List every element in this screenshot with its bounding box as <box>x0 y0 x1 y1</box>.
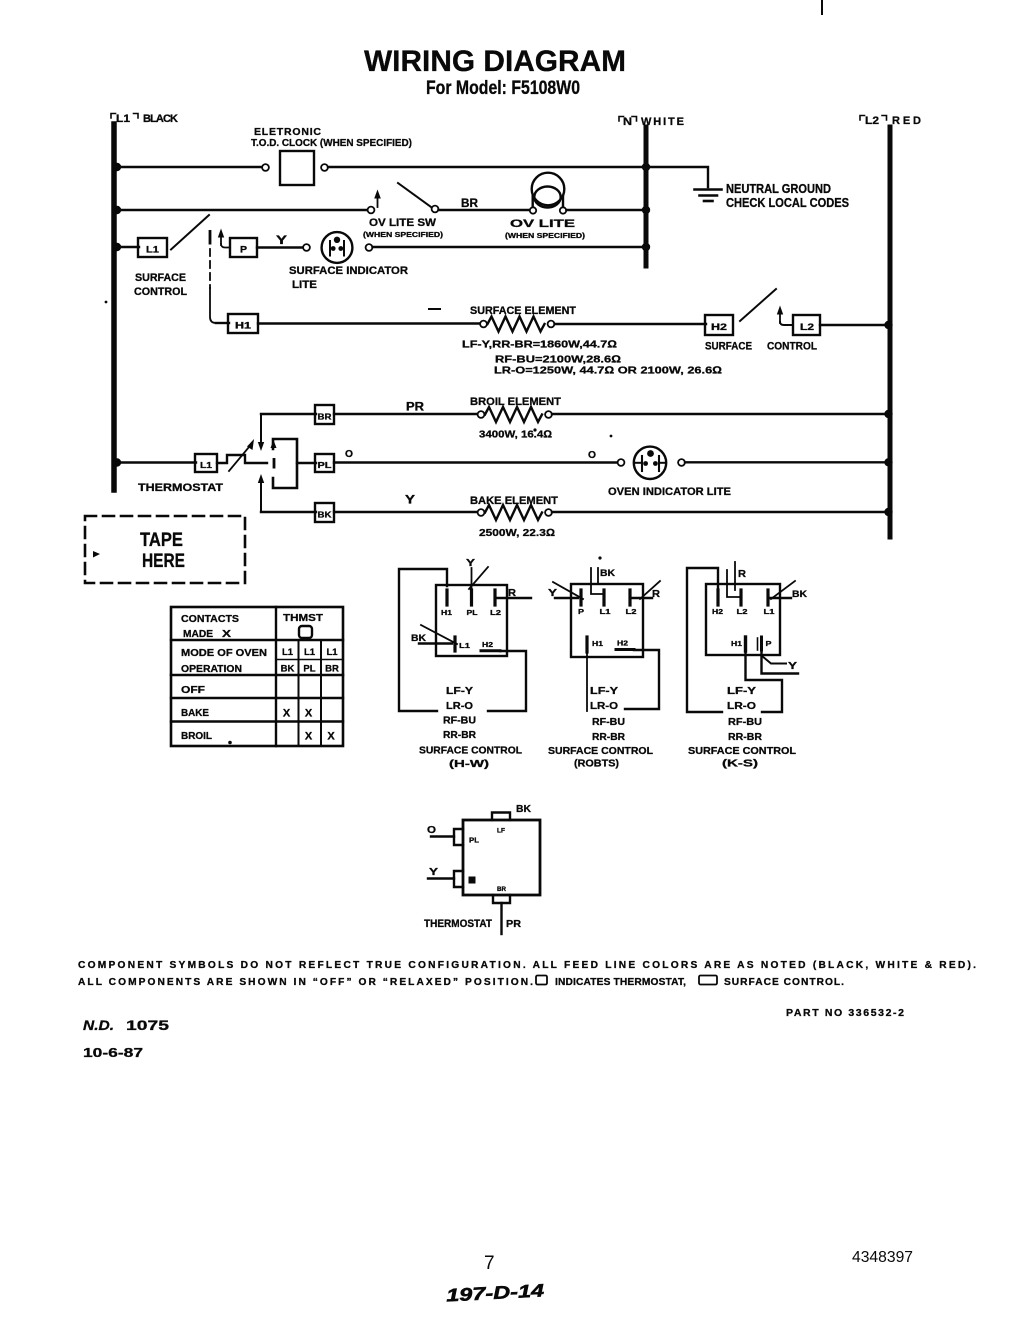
wire H1 down <box>586 652 588 711</box>
switch blade OV LITE SW <box>398 183 431 207</box>
wire R input <box>631 597 652 599</box>
svg-text:(K-S): (K-S) <box>722 758 758 770</box>
svg-text:THERMOSTAT: THERMOSTAT <box>424 918 492 930</box>
svg-text:LR-O=1250W, 44.7Ω OR 2100W, 26: LR-O=1250W, 44.7Ω OR 2100W, 26.6Ω <box>494 365 722 377</box>
svg-text:LR-O: LR-O <box>590 700 618 712</box>
svg-text:L2: L2 <box>737 607 748 616</box>
bracket arrow <box>271 440 277 448</box>
svg-text:RR-BR: RR-BR <box>728 731 762 743</box>
thermostat detail <box>424 804 540 934</box>
thermostat box L1 <box>195 454 217 472</box>
stray mark <box>429 308 440 310</box>
pin P <box>579 590 582 605</box>
surface control symbol small <box>699 976 717 985</box>
svg-text:L1: L1 <box>764 607 775 616</box>
thermostat actuator slash arrow <box>229 439 254 471</box>
thermostat symbol small <box>536 976 547 985</box>
svg-text:RF-BU: RF-BU <box>443 715 476 727</box>
svg-text:X: X <box>327 731 335 743</box>
bus N (white neutral) <box>644 127 649 266</box>
broil drop wire <box>258 414 264 451</box>
svg-text:RED: RED <box>892 115 921 127</box>
svg-text:197-D-14: 197-D-14 <box>446 1280 545 1305</box>
svg-text:PR: PR <box>406 402 425 414</box>
svg-text:P: P <box>240 245 247 255</box>
svg-text:BLACK: BLACK <box>143 113 178 125</box>
terminal bake left <box>478 509 485 516</box>
svg-text:RF-BU: RF-BU <box>592 716 625 728</box>
terminal bake right <box>545 509 552 516</box>
terminal indicator left <box>303 244 310 251</box>
svg-text:R: R <box>738 569 747 580</box>
terminal clock right <box>321 164 328 171</box>
wire H1 loop <box>746 651 783 712</box>
bottom tab with PR wire <box>493 895 510 903</box>
node L2 label RED <box>860 115 921 127</box>
actuator arrow P branch <box>218 229 230 248</box>
terminal oven lamp left <box>618 459 625 466</box>
wire ov lite to N bus <box>567 209 645 211</box>
node N label WHITE <box>619 116 684 128</box>
wire L1 to oven lite switch <box>117 209 367 211</box>
electronic T.O.D. clock box <box>280 151 314 185</box>
svg-text:L2: L2 <box>626 607 637 616</box>
svg-text:THERMOSTAT: THERMOSTAT <box>138 482 223 494</box>
svg-text:SURFACE ELEMENT: SURFACE ELEMENT <box>470 305 576 317</box>
svg-text:SURFACE CONTROL: SURFACE CONTROL <box>548 745 654 757</box>
wire broil to L2 bus <box>552 413 888 415</box>
pin L2 top <box>739 590 742 605</box>
surface control ROBTS detail <box>548 568 660 770</box>
bus L1 (black feed) <box>111 124 117 490</box>
svg-text:P: P <box>578 607 584 616</box>
svg-text:RF-BU: RF-BU <box>728 716 762 728</box>
junction L2-bake row <box>884 508 892 516</box>
svg-text:CONTROL: CONTROL <box>767 341 817 353</box>
wire H2 loop <box>625 650 659 709</box>
terminal broil right <box>545 411 552 418</box>
svg-text:O: O <box>427 825 436 836</box>
wire BK to bake element <box>334 511 478 513</box>
svg-text:T.O.D. CLOCK (WHEN SPECIFIED): T.O.D. CLOCK (WHEN SPECIFIED) <box>251 137 412 149</box>
pin H1 <box>445 590 448 605</box>
svg-text:(H-W): (H-W) <box>449 758 489 770</box>
terminal broil left <box>478 411 485 418</box>
oven indicator lite lamp <box>634 447 666 479</box>
switch blade surface control right <box>740 289 776 321</box>
thermostat body <box>463 820 540 895</box>
svg-text:L1: L1 <box>282 647 294 658</box>
svg-text:LF-Y: LF-Y <box>446 685 473 697</box>
svg-text:BR: BR <box>318 412 332 422</box>
svg-text:LITE: LITE <box>292 279 317 291</box>
terminal ov lite right <box>560 207 566 213</box>
pin L2 top <box>628 590 631 605</box>
junction L1-clock row <box>113 163 121 171</box>
svg-text:OPERATION: OPERATION <box>181 663 242 675</box>
terminal ov lite left <box>530 207 536 213</box>
svg-text:H1: H1 <box>592 639 603 648</box>
svg-text:L1: L1 <box>304 647 316 658</box>
junction L1-ovlite row <box>113 206 121 214</box>
oven lite lamp OV LITE <box>532 173 565 208</box>
svg-text:3400W, 16.4Ω: 3400W, 16.4Ω <box>479 429 552 441</box>
svg-text:TAPE: TAPE <box>140 530 183 551</box>
junction L2-broil row <box>884 410 892 418</box>
svg-text:PL: PL <box>467 608 478 617</box>
wire R input <box>727 570 740 597</box>
surface control K-S detail <box>687 562 808 770</box>
surface control H-W detail <box>399 558 531 770</box>
box L2 <box>793 315 820 335</box>
svg-text:N.D.: N.D. <box>83 1018 114 1033</box>
svg-text:X: X <box>283 708 291 720</box>
svg-text:L1: L1 <box>326 647 338 658</box>
surface control box L1 <box>138 238 167 257</box>
svg-text:H2: H2 <box>617 639 628 648</box>
svg-text:MODE OF OVEN: MODE OF OVEN <box>181 647 267 659</box>
svg-text:N: N <box>623 116 632 128</box>
svg-text:CONTACTS: CONTACTS <box>181 613 239 625</box>
resistor bake element <box>485 505 542 520</box>
svg-text:SURFACE INDICATOR: SURFACE INDICATOR <box>289 265 408 277</box>
left tab PL with O wire <box>454 829 463 845</box>
svg-text:1075: 1075 <box>126 1018 170 1033</box>
node L1 label BLACK <box>111 113 178 125</box>
svg-text:MADE: MADE <box>183 628 213 640</box>
svg-text:10-6-87: 10-6-87 <box>83 1045 143 1060</box>
left tab BK with Y wire <box>454 871 463 887</box>
bus L2 (red feed) <box>888 127 893 537</box>
svg-text:BROIL: BROIL <box>181 730 213 742</box>
wire L1 to surface control <box>117 246 139 248</box>
pin L2 <box>493 590 496 605</box>
svg-text:R: R <box>652 588 660 600</box>
svg-text:Y: Y <box>276 235 287 247</box>
wire BK input <box>769 597 791 599</box>
svg-text:BK: BK <box>318 510 333 520</box>
svg-text:X: X <box>222 628 231 640</box>
wire BK input <box>591 568 603 594</box>
svg-text:BK: BK <box>600 568 616 578</box>
terminal ov lite sw left <box>368 207 375 214</box>
svg-text:L1: L1 <box>116 113 130 125</box>
terminal ov lite sw right <box>432 206 439 213</box>
svg-text:LF: LF <box>497 828 505 835</box>
svg-text:ALL COMPONENTS ARE SHOWN IN “O: ALL COMPONENTS ARE SHOWN IN “OFF” OR “RE… <box>78 977 533 988</box>
element loop wire H-W <box>399 569 526 711</box>
thermostat moving contact bar <box>273 458 276 469</box>
svg-text:SURFACE CONTROL: SURFACE CONTROL <box>688 745 797 757</box>
svg-text:(ROBTS): (ROBTS) <box>574 758 619 770</box>
svg-text:COMPONENT SYMBOLS DO NOT REFLE: COMPONENT SYMBOLS DO NOT REFLECT TRUE CO… <box>78 960 976 971</box>
svg-text:(WHEN SPECIFIED): (WHEN SPECIFIED) <box>363 230 444 239</box>
svg-text:THMST: THMST <box>283 612 324 624</box>
svg-text:BK: BK <box>792 589 808 599</box>
box H2 <box>705 315 733 335</box>
box PL <box>315 454 334 472</box>
wire link to H1 <box>216 322 229 324</box>
svg-text:BK: BK <box>411 633 427 643</box>
svg-text:H2: H2 <box>482 640 493 649</box>
wire P to indicator <box>257 246 303 248</box>
svg-text:LR-O: LR-O <box>727 700 756 712</box>
svg-text:L1: L1 <box>200 460 212 470</box>
svg-text:SURFACE: SURFACE <box>135 272 186 284</box>
svg-text:L1: L1 <box>459 641 470 650</box>
svg-text:PR: PR <box>506 918 521 930</box>
svg-text:WIRING DIAGRAM: WIRING DIAGRAM <box>364 45 626 78</box>
box P <box>230 238 257 257</box>
pin H1 bottom <box>585 637 588 652</box>
tape here box <box>85 516 245 583</box>
wire surface element to H2 <box>555 323 707 325</box>
svg-text:For Model: F5108W0: For Model: F5108W0 <box>426 78 580 99</box>
svg-text:CHECK LOCAL CODES: CHECK LOCAL CODES <box>726 196 849 210</box>
junction N-ovlite row <box>642 206 650 214</box>
svg-text:BR: BR <box>325 664 339 675</box>
mechanical link solid to H1 row <box>210 288 216 323</box>
svg-text:SURFACE CONTROL: SURFACE CONTROL <box>419 745 523 757</box>
box BR <box>315 405 334 424</box>
junction L1-thermostat row <box>113 458 121 466</box>
svg-text:NEUTRAL GROUND: NEUTRAL GROUND <box>726 182 831 196</box>
wire N bus to ground <box>649 167 708 187</box>
svg-text:Y: Y <box>788 661 797 672</box>
svg-text:BROIL ELEMENT: BROIL ELEMENT <box>470 396 561 408</box>
box H1 <box>228 314 258 333</box>
junction L1-surface control row <box>113 243 121 251</box>
pin L1 top <box>766 590 769 605</box>
svg-text:7: 7 <box>484 1253 495 1274</box>
svg-text:BAKE: BAKE <box>181 707 209 719</box>
wire R output <box>497 597 531 599</box>
stray dots <box>533 428 536 431</box>
svg-text:OFF: OFF <box>181 684 206 696</box>
contact bar <box>209 230 212 245</box>
wire P down <box>762 650 799 674</box>
svg-text:OV LITE: OV LITE <box>510 218 575 230</box>
pin P bottom <box>757 638 759 650</box>
neutral ground symbol <box>695 190 722 202</box>
svg-text:HERE: HERE <box>142 551 185 572</box>
svg-text:OVEN INDICATOR LITE: OVEN INDICATOR LITE <box>608 486 731 498</box>
junction L2-surface row <box>884 321 892 329</box>
pin L1 <box>453 637 456 651</box>
switch body ROBTS <box>571 584 643 657</box>
svg-text:L1: L1 <box>600 607 611 616</box>
svg-text:INDICATES THERMOSTAT,: INDICATES THERMOSTAT, <box>555 977 686 988</box>
svg-text:BK: BK <box>281 664 295 675</box>
wire switch to ov lite <box>439 209 530 211</box>
svg-text:L1: L1 <box>146 245 159 255</box>
svg-text:LR-O: LR-O <box>446 700 473 712</box>
wire bake to L2 bus <box>552 511 888 513</box>
actuator arrow L2 <box>777 306 793 326</box>
svg-text:BK: BK <box>516 804 532 815</box>
resistor surface element <box>488 317 545 332</box>
junction N-clock row <box>642 163 650 171</box>
stray dot <box>228 741 232 745</box>
pin PL <box>470 590 473 605</box>
svg-text:O: O <box>345 448 353 460</box>
svg-text:H1: H1 <box>441 608 452 617</box>
tape arrow mark <box>93 551 100 558</box>
svg-text:2500W, 22.3Ω: 2500W, 22.3Ω <box>479 527 555 539</box>
svg-text:BR: BR <box>461 198 479 210</box>
wire indicator to N bus <box>373 246 645 248</box>
table column heads L1/BK L1/PL L1/BR <box>281 647 339 675</box>
thermostat contact bracket <box>273 439 297 488</box>
wire clock to N bus <box>328 166 644 168</box>
svg-text:H1: H1 <box>235 321 251 331</box>
wire BR to broil element <box>334 413 478 415</box>
page corner tick <box>821 0 823 14</box>
svg-text:RR-BR: RR-BR <box>443 729 476 741</box>
svg-text:LF-Y,RR-BR=1860W,44.7Ω: LF-Y,RR-BR=1860W,44.7Ω <box>462 339 617 351</box>
svg-text:H1: H1 <box>731 639 742 648</box>
svg-text:Y: Y <box>429 867 438 878</box>
surface indicator lite lamp <box>322 232 353 263</box>
contacts table <box>171 607 343 746</box>
terminal oven lamp right <box>678 459 685 466</box>
resistor broil element <box>485 407 542 422</box>
terminal surface element right <box>548 321 555 328</box>
svg-text:L2: L2 <box>490 608 501 617</box>
junction L2-oven row <box>884 458 892 466</box>
svg-text:OV LITE SW: OV LITE SW <box>369 217 437 229</box>
bake rise wire <box>258 474 264 512</box>
wire L2 box to L2 bus <box>820 324 888 326</box>
svg-text:BR: BR <box>497 886 506 893</box>
thermostat symbol in table <box>299 626 312 638</box>
wire Y input <box>555 597 578 599</box>
wire H1 to surface element <box>258 322 480 324</box>
junction N-indicator row <box>642 243 650 251</box>
switch blade surface control <box>171 215 209 250</box>
terminal surface element left <box>480 321 487 328</box>
wire oven lamp to L2 bus <box>685 461 888 463</box>
pin H2 top <box>716 590 719 605</box>
svg-text:Y: Y <box>405 495 415 507</box>
top tab BK <box>492 813 510 821</box>
svg-text:PL: PL <box>318 460 332 470</box>
wire PL to oven lamp <box>334 461 618 463</box>
svg-text:4348397: 4348397 <box>852 1249 913 1266</box>
actuator arrow ov lite sw <box>374 190 381 208</box>
svg-text:RR-BR: RR-BR <box>592 731 625 743</box>
svg-text:SURFACE: SURFACE <box>705 341 752 353</box>
wire bracket to PL <box>297 462 316 464</box>
svg-text:BAKE ELEMENT: BAKE ELEMENT <box>470 495 558 507</box>
svg-text:PART NO 336532-2: PART NO 336532-2 <box>786 1007 904 1019</box>
svg-text:L2: L2 <box>800 322 814 332</box>
mechanical link dashed <box>209 249 211 288</box>
svg-text:O: O <box>588 449 596 461</box>
svg-text:PL: PL <box>469 836 479 845</box>
svg-text:SURFACE CONTROL.: SURFACE CONTROL. <box>724 977 844 988</box>
svg-text:PL: PL <box>303 664 315 675</box>
svg-text:LF-Y: LF-Y <box>590 685 618 697</box>
box BK <box>315 503 334 522</box>
svg-text:(WHEN SPECIFIED): (WHEN SPECIFIED) <box>505 231 586 240</box>
switch body H-W <box>436 585 507 656</box>
svg-text:LF-Y: LF-Y <box>727 685 756 697</box>
element loop wire K-S <box>687 568 722 712</box>
wire Y stub <box>762 656 786 664</box>
svg-text:X: X <box>305 708 313 720</box>
terminal clock left <box>262 164 269 171</box>
thermostat actuator jog <box>217 455 267 463</box>
wire bake left <box>261 511 316 513</box>
svg-text:H2: H2 <box>712 607 723 616</box>
wire L1 to clock <box>117 166 262 168</box>
switch body K-S <box>706 584 780 655</box>
terminal indicator right <box>366 244 373 251</box>
svg-text:CONTROL: CONTROL <box>134 286 187 298</box>
wire broil left <box>261 413 316 415</box>
pin L1 top <box>602 590 605 605</box>
svg-text:Y: Y <box>548 588 557 599</box>
svg-text:X: X <box>305 731 313 743</box>
svg-text:H2: H2 <box>711 322 727 332</box>
svg-text:L2: L2 <box>865 115 879 127</box>
wire L1 to thermostat <box>117 461 196 463</box>
svg-text:P: P <box>766 639 772 648</box>
svg-text:R: R <box>508 587 516 599</box>
